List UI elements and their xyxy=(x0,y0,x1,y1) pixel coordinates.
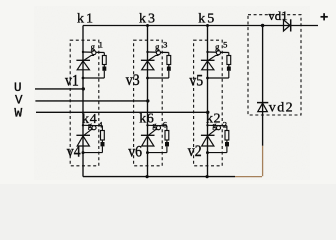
svg-text:k1: k1 xyxy=(77,12,95,27)
svg-text:g: g xyxy=(88,120,93,130)
svg-text:vd1: vd1 xyxy=(268,8,288,23)
svg-text:W: W xyxy=(14,106,22,121)
svg-text:2: 2 xyxy=(223,119,227,129)
svg-text:3: 3 xyxy=(163,40,167,50)
svg-text:v2: v2 xyxy=(188,143,202,160)
svg-text:k5: k5 xyxy=(198,12,216,27)
svg-text:g: g xyxy=(212,120,217,130)
svg-text:g: g xyxy=(215,42,220,52)
svg-text:k3: k3 xyxy=(139,12,157,27)
svg-text:v4: v4 xyxy=(67,144,81,161)
svg-text:vd2: vd2 xyxy=(269,100,294,115)
svg-text:g: g xyxy=(91,42,96,52)
svg-text:v1: v1 xyxy=(65,72,79,89)
svg-text:1: 1 xyxy=(99,40,103,50)
svg-text:g: g xyxy=(152,120,157,130)
svg-text:6: 6 xyxy=(163,119,167,129)
svg-text:5: 5 xyxy=(223,40,227,50)
svg-text:4: 4 xyxy=(98,119,103,129)
svg-text:g: g xyxy=(155,42,160,52)
svg-text:v6: v6 xyxy=(128,144,142,161)
svg-text:v3: v3 xyxy=(126,72,140,89)
svg-text:v5: v5 xyxy=(189,72,203,89)
